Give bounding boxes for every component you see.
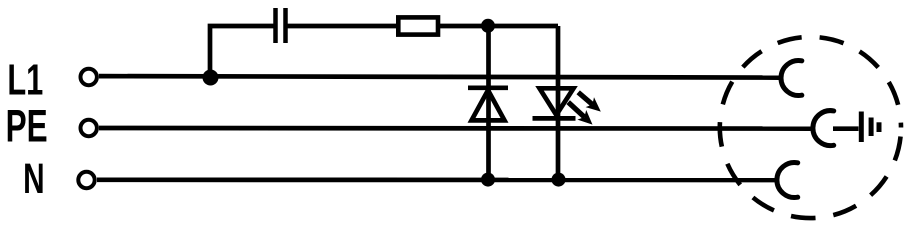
wire capacitor to resistor [287,24,396,29]
wire vertical through LED V2 [556,26,561,180]
wire PE pin to earth [833,126,859,131]
wire PE [99,126,811,131]
wire riser from L1 to top branch [210,26,274,77]
node junction top branch [481,19,495,33]
wire L1 [99,76,779,78]
svg-text:L1: L1 [7,56,43,105]
contact N (socket) [777,163,798,198]
node junction N right [552,173,566,187]
wire N [97,177,775,182]
plug outline (dashed circle) [720,37,901,218]
LED V2 light arrow upper [578,92,601,111]
LED V2 triangle [540,88,574,115]
svg-text:N: N [23,155,44,203]
diode V1 cathode bar [468,85,508,90]
svg-text:PE: PE [6,102,48,152]
node junction N left [481,173,495,187]
resistor R1 [398,17,438,34]
LED V2 cathode bar [533,116,576,121]
contact L1 (socket) [781,61,802,96]
wire vertical through diode V1 [486,26,491,180]
wire resistor to corner [440,24,558,29]
contact PE (socket) [813,111,834,146]
LED V2 light arrow lower [568,102,592,124]
terminal N [78,172,94,188]
terminal PE [81,120,97,136]
node junction on L1 [203,70,219,86]
earth symbol on plug [861,112,879,143]
terminal L1 [81,69,97,85]
capacitor C1 [276,8,286,43]
diode V1 triangle [472,90,505,120]
